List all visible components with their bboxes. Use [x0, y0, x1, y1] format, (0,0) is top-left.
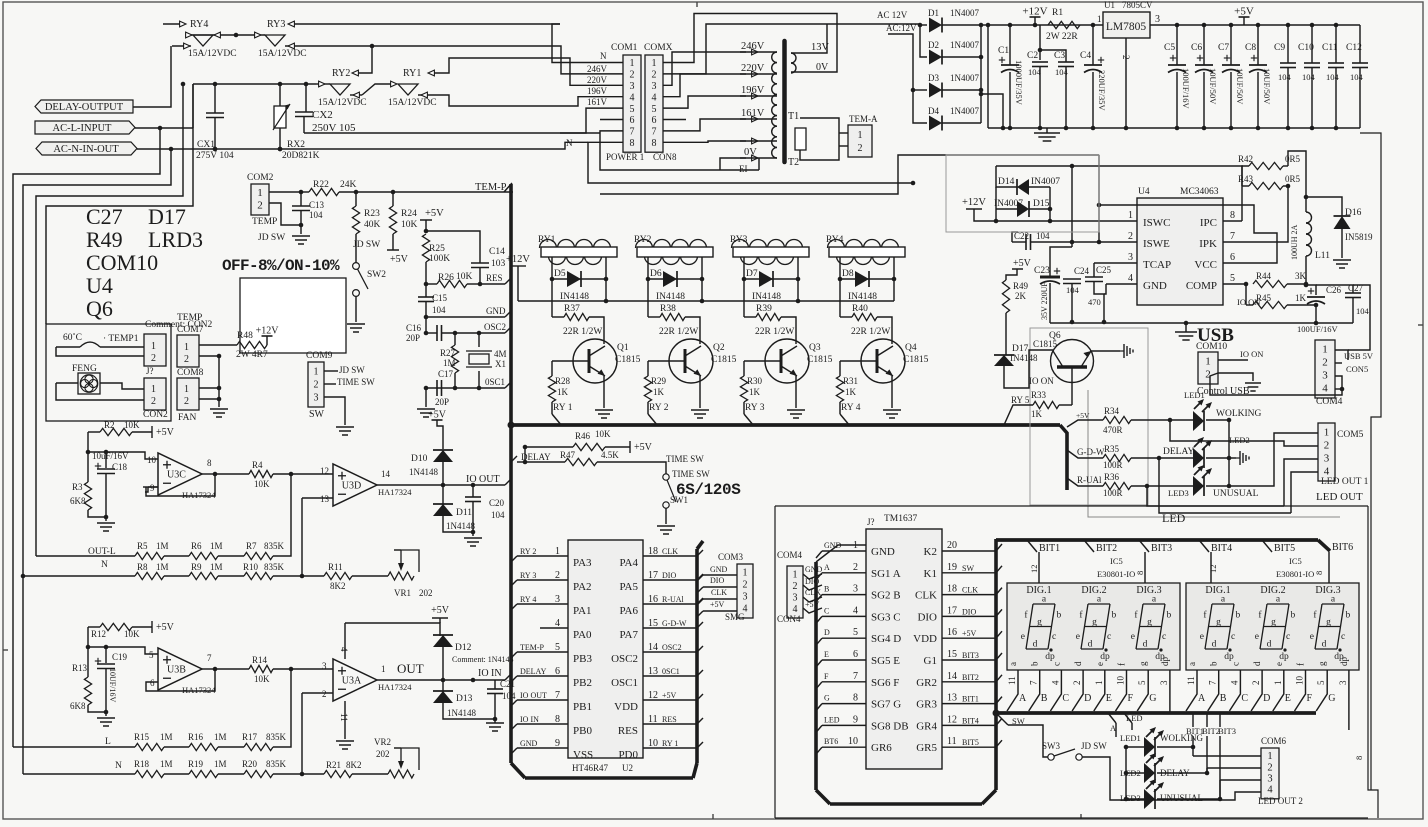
svg-text:104: 104 [502, 691, 516, 701]
tm1637 pin 3 SG2 B [816, 584, 901, 602]
svg-text:BIT2: BIT2 [962, 673, 979, 682]
svg-text:IPK: IPK [1199, 238, 1217, 250]
mcu pin 9 VSS [511, 738, 593, 761]
svg-text:C27: C27 [86, 204, 123, 229]
node BIT1 [1027, 540, 1060, 584]
svg-text:D: D [824, 628, 830, 637]
wire com7-1 [199, 344, 237, 346]
svg-text:2W 22R: 2W 22R [1046, 32, 1078, 42]
resistor R21 8K2 [302, 760, 388, 778]
box led section [1088, 390, 1340, 517]
svg-text:R27: R27 [440, 348, 456, 358]
wire +12V rail relays [518, 299, 894, 304]
transistor Q1 C1815 [552, 339, 641, 383]
svg-text:+12V: +12V [962, 197, 986, 208]
power +5V [387, 250, 409, 265]
svg-text:20: 20 [947, 540, 957, 551]
capacitor C25 470 [1085, 263, 1112, 324]
wire into pin5 161V [560, 97, 623, 133]
wire com7-2 [199, 354, 221, 402]
svg-text:C2: C2 [1027, 51, 1038, 61]
svg-text:103: 103 [491, 259, 506, 269]
wire pin6 stub [600, 119, 686, 121]
svg-text:IN4007: IN4007 [1031, 177, 1060, 187]
svg-text:+5V: +5V [425, 208, 444, 219]
svg-text:VCC: VCC [1194, 259, 1217, 271]
svg-text:4: 4 [1324, 465, 1330, 477]
svg-text:R12: R12 [91, 629, 106, 639]
wire pin6 vcc [1097, 203, 1277, 263]
svg-text:N: N [115, 761, 122, 771]
svg-text:d: d [1033, 640, 1038, 650]
resistor R8 1M [23, 562, 169, 580]
resistor R44 3K [1253, 271, 1308, 288]
svg-text:COM10: COM10 [86, 250, 158, 275]
svg-text:4: 4 [630, 92, 635, 103]
label L ladder [105, 737, 111, 747]
wire delay-output to fuse [133, 46, 171, 107]
label 6S/120S [676, 481, 741, 499]
svg-text:COM2: COM2 [247, 173, 274, 183]
led LED3 UNUSUAL lower [1120, 779, 1222, 809]
svg-text:10UF/50V: 10UF/50V [1235, 68, 1245, 105]
svg-text:dp: dp [1160, 657, 1170, 667]
capacitor C15 104 [418, 284, 448, 319]
wire ac-l [135, 126, 193, 131]
svg-text:c: c [1052, 632, 1056, 642]
ground [1333, 260, 1351, 268]
svg-text:C23: C23 [1034, 266, 1050, 276]
svg-text:R24: R24 [401, 209, 417, 219]
note comment [145, 320, 213, 330]
svg-text:R3: R3 [72, 482, 83, 492]
svg-text:PA2: PA2 [573, 581, 592, 593]
svg-text:104: 104 [491, 510, 505, 520]
power +5V U3A [345, 605, 450, 636]
transistor Q2 C1815 [648, 339, 737, 383]
svg-text:e: e [1200, 632, 1204, 642]
svg-text:d: d [1252, 661, 1262, 666]
svg-text:2: 2 [743, 580, 748, 591]
svg-text:OSC2: OSC2 [484, 322, 506, 332]
svg-text:15: 15 [947, 649, 957, 660]
tm1637 pin 20 K2 [924, 540, 1002, 558]
svg-text:e: e [1131, 632, 1135, 642]
svg-text:10K: 10K [401, 220, 418, 230]
svg-text:e: e [1095, 662, 1105, 666]
svg-text:3: 3 [314, 392, 319, 403]
svg-text:2: 2 [1267, 762, 1272, 773]
svg-text:R49: R49 [1013, 281, 1029, 291]
bus mcu bottom [525, 541, 703, 778]
capacitor C7 10UF/50V [1218, 25, 1245, 128]
wire c19 gnd [105, 712, 107, 716]
capacitor C21 104 [487, 679, 516, 721]
svg-text:5: 5 [149, 650, 154, 660]
ground U3A [336, 741, 354, 749]
svg-text:dp: dp [1279, 652, 1289, 662]
svg-text:COM8: COM8 [177, 368, 204, 378]
svg-text:LED1: LED1 [1120, 733, 1141, 743]
svg-text:0V: 0V [816, 62, 829, 73]
svg-text:835K: 835K [264, 562, 285, 572]
svg-text:SW: SW [309, 409, 325, 420]
svg-text:3: 3 [1324, 452, 1330, 464]
svg-text:C1: C1 [998, 46, 1009, 56]
svg-text:BIT3: BIT3 [1218, 726, 1236, 736]
svg-text:7: 7 [1230, 231, 1235, 242]
svg-text:GR3: GR3 [916, 699, 937, 711]
svg-text:LRD3: LRD3 [148, 227, 203, 252]
svg-text:G-D-W: G-D-W [1077, 447, 1105, 457]
svg-text:c: c [1230, 662, 1240, 666]
svg-text:11: 11 [947, 736, 957, 747]
svg-text:c: c [1107, 632, 1111, 642]
svg-text:10K: 10K [124, 420, 140, 430]
svg-text:2: 2 [184, 396, 189, 407]
svg-text:G-D-W: G-D-W [662, 619, 687, 628]
svg-text:10K: 10K [254, 479, 270, 489]
tm1637 pin 1 GND [816, 540, 895, 558]
svg-text:COM6: COM6 [1261, 736, 1287, 746]
relay coil RY2 [634, 235, 713, 279]
potentiometer VR2 202 [374, 737, 419, 778]
resistor R1 2W 22R [1046, 8, 1080, 42]
svg-text:GND: GND [520, 739, 538, 748]
svg-text:DIG.1: DIG.1 [1026, 585, 1051, 596]
led LED3 UNUSUAL [1168, 465, 1259, 499]
mcu pin 12 VDD [614, 690, 703, 713]
resistor R2 10K [88, 420, 152, 436]
svg-text:DIG.1: DIG.1 [1205, 585, 1230, 596]
svg-text:2: 2 [1251, 681, 1261, 686]
svg-text:C9: C9 [1274, 43, 1285, 53]
svg-text:CLK: CLK [962, 586, 978, 595]
resistor R17 835K [218, 669, 291, 751]
svg-text:b: b [1112, 611, 1117, 621]
svg-text:COM7: COM7 [177, 325, 204, 335]
svg-text:4: 4 [1229, 680, 1239, 685]
svg-text:3: 3 [853, 584, 858, 595]
transistor Q4 C1815 [840, 339, 929, 383]
bus tm1637 right thick [993, 539, 1000, 790]
connector COM10 Control USB [1196, 342, 1263, 397]
svg-text:R-UAl: R-UAl [662, 595, 685, 604]
resistor R7 835K [218, 474, 291, 560]
svg-text:IN4148: IN4148 [848, 292, 877, 302]
svg-text:+12V: +12V [1022, 6, 1047, 18]
diode D3 1N4007 [928, 73, 981, 98]
svg-text:220UF/35V: 220UF/35V [1097, 70, 1107, 111]
svg-text:OFF-8%/ON-10%: OFF-8%/ON-10% [222, 257, 340, 275]
svg-text:15A/12VDC: 15A/12VDC [188, 49, 237, 59]
svg-text:8: 8 [1314, 571, 1324, 575]
svg-text:RES: RES [618, 725, 638, 737]
label DELAY [511, 447, 551, 462]
label IO IN [478, 668, 502, 679]
wire EI line [739, 158, 759, 174]
resistor R30 1K [740, 361, 762, 414]
svg-text:1: 1 [257, 187, 263, 199]
svg-text:1N4007: 1N4007 [950, 73, 979, 83]
svg-text:a: a [1187, 662, 1197, 666]
svg-text:0R5: 0R5 [1285, 174, 1301, 184]
wire coil to rail [701, 279, 703, 301]
svg-text:2: 2 [793, 581, 798, 592]
wire top rail [193, 82, 316, 87]
svg-text:8: 8 [652, 138, 657, 149]
wire osc gnd [425, 388, 427, 407]
svg-text:6: 6 [853, 649, 858, 660]
svg-text:d: d [1088, 640, 1093, 650]
svg-text:D: D [1084, 693, 1091, 704]
svg-text:1M: 1M [156, 541, 169, 551]
svg-text:e: e [1255, 632, 1259, 642]
svg-text:SW: SW [962, 564, 974, 573]
capacitor C12 104 [1346, 25, 1368, 128]
capacitor C2 104 [1027, 25, 1048, 128]
svg-text:10: 10 [1116, 676, 1126, 686]
svg-text:D14: D14 [998, 177, 1015, 187]
svg-text:R29: R29 [651, 376, 667, 386]
svg-text:D7: D7 [746, 269, 758, 279]
svg-text:e: e [1076, 632, 1080, 642]
mcu pin 11 RES [618, 714, 703, 737]
resistor R38 22R 1/2W [648, 279, 700, 344]
svg-text:1M: 1M [160, 759, 173, 769]
resistor R35 100R [1103, 444, 1194, 470]
wire emitter gnd [699, 376, 701, 408]
svg-text:BIT4: BIT4 [1211, 543, 1232, 554]
switch SW1 [663, 474, 688, 524]
ground [210, 409, 228, 417]
resistor R42 0R5 [1238, 154, 1301, 221]
resistor R43 0R5 [1238, 166, 1301, 190]
svg-text:BIT1: BIT1 [962, 695, 979, 704]
svg-text:J?: J? [146, 366, 154, 376]
mcu pin 17 PA5 [619, 570, 703, 593]
svg-text:G: G [824, 694, 830, 703]
tm1637 pin 19 K1 [924, 562, 1002, 580]
svg-text:4.5K: 4.5K [601, 450, 619, 460]
ground [787, 410, 805, 418]
svg-text:1: 1 [1267, 751, 1272, 762]
svg-text:5: 5 [1316, 680, 1326, 685]
transformer T1 primary taps [740, 41, 777, 161]
svg-text:8: 8 [1230, 210, 1235, 221]
svg-text:R35: R35 [1104, 444, 1120, 454]
wire bridge out bottom [979, 92, 1006, 131]
svg-text:2: 2 [1322, 356, 1328, 368]
op-amp U3B HA17324 [149, 648, 216, 695]
svg-text:IN4148: IN4148 [752, 292, 781, 302]
svg-text:2: 2 [151, 353, 156, 364]
mcu pin 6 PB2 [511, 666, 592, 689]
capacitor C14 103 [426, 231, 506, 286]
svg-text:2: 2 [314, 379, 319, 390]
svg-text:USB 5V: USB 5V [1344, 351, 1374, 361]
wire com9 gnd [324, 397, 345, 425]
svg-text:1K: 1K [653, 387, 665, 397]
svg-text:C16: C16 [406, 323, 422, 333]
svg-text:GND: GND [871, 546, 895, 558]
label LED OUT 1 [1321, 477, 1369, 487]
svg-text:6K8: 6K8 [70, 496, 86, 506]
svg-text:1: 1 [314, 366, 319, 377]
svg-text:e: e [1021, 632, 1025, 642]
svg-text:COM3: COM3 [718, 552, 744, 562]
label IO ON [1029, 376, 1054, 386]
resistor R13 6K8 [70, 647, 106, 712]
svg-text:PA4: PA4 [619, 557, 638, 569]
resistor R31 1K [836, 361, 858, 414]
svg-text:TEM-P: TEM-P [475, 182, 507, 193]
display module pins #2 [1186, 657, 1349, 731]
svg-text:DIO: DIO [710, 576, 724, 585]
crystal X1 4M [466, 333, 507, 390]
svg-text:7: 7 [207, 653, 212, 663]
label RY 2 [648, 403, 669, 426]
tm1637 pin 2 SG1 A [816, 562, 901, 580]
svg-text:6: 6 [630, 115, 635, 126]
bus thick horizontal [508, 422, 1061, 429]
resistor R10 835K [218, 562, 304, 580]
svg-text:10: 10 [848, 736, 858, 747]
svg-text:LM7805: LM7805 [1106, 21, 1147, 33]
wire pin8 N [566, 138, 913, 183]
capacitor C11 104 [1322, 25, 1344, 128]
svg-text:1N4148: 1N4148 [446, 521, 475, 531]
svg-text:N: N [101, 560, 108, 570]
label OSC1 [424, 377, 511, 390]
wire +12V rail [986, 23, 1103, 28]
svg-text:GR4: GR4 [916, 720, 937, 732]
svg-text:CX1: CX1 [197, 140, 215, 150]
wire com6 l3 [1220, 780, 1261, 799]
svg-text:BIT2: BIT2 [1096, 543, 1117, 554]
op-amp U3D HA17324 [320, 464, 412, 506]
svg-text:TEM-P: TEM-P [520, 643, 545, 652]
wire comx pin3 tap246 [663, 52, 746, 85]
svg-text:U4: U4 [86, 273, 113, 298]
svg-text:b: b [1236, 611, 1241, 621]
svg-text:C: C [824, 606, 829, 615]
svg-text:N: N [600, 51, 607, 61]
svg-text:C18: C18 [112, 462, 128, 472]
svg-text:+12V: +12V [256, 326, 280, 337]
label RY 5 [1004, 395, 1033, 425]
op-amp U3C HA17324 [145, 453, 216, 500]
label AC-N-IN-OUT [36, 142, 137, 155]
wire u3d in+ [291, 473, 333, 475]
op-amp U3A HA17324 [322, 623, 412, 739]
svg-text:R6: R6 [191, 541, 202, 551]
svg-text:5: 5 [652, 104, 657, 115]
svg-text:D2: D2 [928, 40, 939, 50]
svg-text:SW1: SW1 [670, 495, 688, 505]
node BIT3 [1139, 540, 1172, 584]
tm1637 pin 15 G1 [924, 649, 1002, 667]
svg-text:5: 5 [630, 104, 635, 115]
svg-text:DIG.3: DIG.3 [1136, 585, 1161, 596]
svg-text:RY 4: RY 4 [520, 595, 536, 604]
mcu pin 2 PA2 [511, 570, 592, 593]
svg-text:2K: 2K [1015, 291, 1027, 301]
svg-text:R26: R26 [438, 273, 454, 283]
svg-text:1K: 1K [749, 387, 761, 397]
svg-text:JD SW: JD SW [339, 365, 365, 375]
svg-text:1: 1 [184, 384, 189, 395]
svg-text:LED3: LED3 [1168, 488, 1189, 498]
wire iswe riser 1 [1070, 166, 1075, 247]
svg-text:8: 8 [630, 138, 635, 149]
svg-text:TEMP: TEMP [252, 217, 277, 227]
svg-text:E30801-IO: E30801-IO [1097, 569, 1135, 579]
svg-text:R30: R30 [747, 376, 763, 386]
svg-text:R48: R48 [237, 331, 253, 341]
svg-text:VSS: VSS [573, 749, 593, 761]
svg-text:C1815: C1815 [711, 355, 737, 365]
svg-text:202: 202 [376, 749, 390, 759]
svg-text:10UF/16V: 10UF/16V [108, 668, 117, 702]
svg-text:C4: C4 [1080, 51, 1091, 61]
svg-text:835K: 835K [264, 541, 285, 551]
svg-text:4: 4 [1322, 382, 1328, 394]
transformer secondary 13V [791, 24, 830, 73]
wire comx pin4 tap220 [663, 74, 746, 97]
svg-text:1M: 1M [160, 732, 173, 742]
connector COM3 SMG [697, 552, 753, 622]
svg-text:R40: R40 [852, 304, 868, 314]
relay contact RY3 label [267, 19, 560, 30]
svg-text:7: 7 [1029, 680, 1039, 685]
svg-text:BIT4: BIT4 [962, 716, 979, 725]
svg-text:1N4148: 1N4148 [447, 708, 476, 718]
mcu pin 10 PD0 [618, 738, 703, 761]
wire com6 l2 [1207, 768, 1261, 773]
svg-text:3: 3 [1159, 680, 1169, 685]
svg-text:PB0: PB0 [573, 725, 592, 737]
svg-text:20P: 20P [435, 397, 449, 407]
svg-text:100UH 2A: 100UH 2A [1290, 224, 1299, 260]
diode D8 IN4148 [838, 269, 897, 302]
svg-text:g: g [1147, 618, 1152, 628]
svg-text:R17: R17 [242, 732, 258, 742]
wire led net down [1147, 458, 1291, 513]
resistor R29 1K [644, 361, 666, 414]
svg-text:R5: R5 [137, 541, 148, 551]
power +12V D15 [962, 197, 1137, 223]
mcu pin 15 PA7 [619, 618, 703, 641]
wire r12 left [86, 627, 158, 654]
svg-text:PA1: PA1 [573, 605, 592, 617]
power +5V R49 [1006, 258, 1032, 280]
svg-text:6: 6 [652, 115, 657, 126]
svg-text:R34: R34 [1104, 406, 1120, 416]
svg-text:11: 11 [339, 713, 349, 722]
svg-text:196V: 196V [587, 86, 608, 96]
capacitor C26 100UF/16V [1297, 285, 1342, 334]
wire coil to rail [797, 279, 799, 301]
wire pin4 gnd [1104, 284, 1137, 294]
label +5V stub [1067, 411, 1103, 427]
svg-text:T2: T2 [788, 157, 799, 168]
power +5V D10 [428, 410, 447, 450]
svg-text:d: d [1322, 640, 1327, 650]
svg-text:BT6: BT6 [824, 737, 838, 746]
svg-text:1K: 1K [1031, 409, 1043, 419]
wire comx pin1 loop [663, 14, 837, 73]
